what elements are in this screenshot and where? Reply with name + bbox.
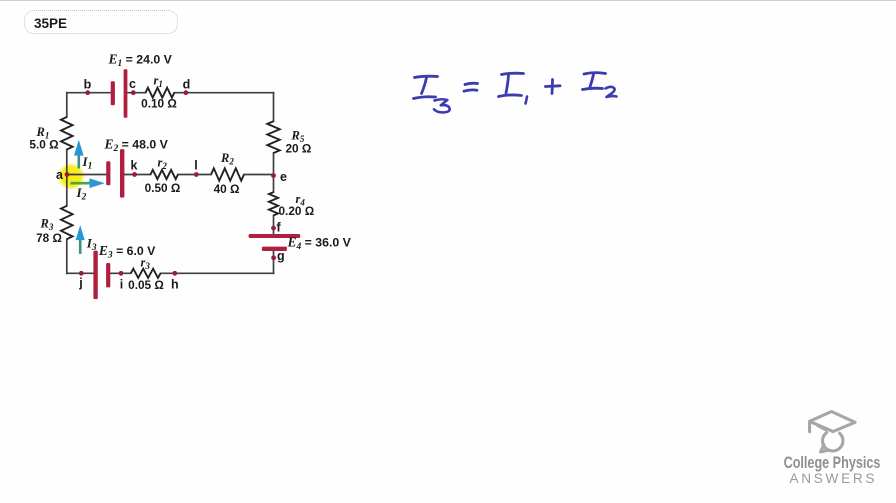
top hairline border bbox=[0, 0, 896, 1]
svg-text:d: d bbox=[183, 78, 191, 92]
label node e bbox=[280, 170, 287, 184]
wire E3 to bottom-left corner (node j) bbox=[67, 272, 94, 274]
label 0.10 ohm bbox=[141, 97, 177, 111]
wire bottom-left corner up to R3 bbox=[66, 239, 68, 273]
wire R3 to R1 through node a bbox=[66, 150, 68, 206]
label node l bbox=[194, 159, 197, 173]
wire r4 to E4 (node f) bbox=[273, 215, 275, 234]
svg-text:b: b bbox=[84, 78, 92, 92]
label R1 bbox=[36, 125, 50, 141]
wire b to E1 (top) bbox=[67, 92, 111, 94]
node j junction dot bbox=[79, 271, 84, 276]
wire E2 to r2 (node k) bbox=[124, 174, 150, 176]
handwritten equation I3 = I1 + I2 bbox=[414, 73, 617, 113]
svg-text:E2 = 48.0 V: E2 = 48.0 V bbox=[104, 137, 169, 155]
label current I1 bbox=[82, 154, 93, 172]
current arrow I2 (green/blue, rightward at node a) bbox=[71, 178, 105, 188]
label node j bbox=[78, 276, 82, 290]
resistor R5 20 ohm (right upper) bbox=[267, 121, 279, 153]
svg-text:e: e bbox=[280, 170, 287, 184]
node i junction dot bbox=[119, 271, 124, 276]
label node i bbox=[120, 278, 123, 292]
label 5.0 ohm bbox=[29, 138, 58, 152]
label r3 bbox=[141, 255, 151, 271]
svg-text:0.50 Ω: 0.50 Ω bbox=[145, 181, 181, 195]
College Physics Answers logo: graduation-cap speech bubble icon bbox=[810, 412, 855, 452]
wire R1 to top-left corner bbox=[66, 93, 68, 117]
wire R5 to r4 through node e bbox=[273, 153, 275, 192]
svg-text:E1 = 24.0 V: E1 = 24.0 V bbox=[108, 52, 173, 70]
label R3 bbox=[40, 217, 54, 233]
svg-text:E3 = 6.0 V: E3 = 6.0 V bbox=[98, 243, 156, 261]
current arrow I1 (blue, upward at node a) bbox=[74, 140, 84, 169]
node f junction dot bbox=[271, 226, 276, 231]
wire d to top-right corner bbox=[174, 92, 273, 94]
battery E2 positive plate (long) bbox=[120, 149, 124, 198]
node g junction dot bbox=[271, 255, 276, 260]
node l junction dot bbox=[194, 172, 199, 177]
svg-text:r2: r2 bbox=[158, 156, 168, 172]
battery E4 positive plate (long, horizontal) bbox=[249, 234, 301, 238]
node e junction dot bbox=[271, 173, 276, 178]
svg-text:40 Ω: 40 Ω bbox=[214, 182, 240, 196]
battery E4 negative plate (short, horizontal) bbox=[262, 247, 287, 251]
svg-text:k: k bbox=[131, 159, 138, 173]
battery E1 positive plate (long) bbox=[124, 69, 128, 118]
label node f bbox=[277, 221, 282, 235]
label 0.50 ohm bbox=[145, 181, 181, 195]
svg-text:i: i bbox=[120, 278, 123, 292]
node c junction dot bbox=[131, 90, 136, 95]
wire E4 to bottom-right corner (node g) bbox=[273, 251, 275, 274]
svg-text:I2: I2 bbox=[76, 185, 87, 203]
node d junction dot bbox=[184, 90, 189, 95]
label r4 bbox=[296, 192, 306, 208]
svg-text:0.05 Ω: 0.05 Ω bbox=[128, 278, 164, 292]
svg-text:ANSWERS: ANSWERS bbox=[790, 471, 878, 486]
resistor R1 5.0 ohm (left upper) bbox=[61, 117, 73, 150]
label r1 bbox=[154, 74, 163, 90]
wire R2 to node e bbox=[244, 174, 274, 176]
svg-text:0.10 Ω: 0.10 Ω bbox=[141, 97, 177, 111]
svg-text:College Physics: College Physics bbox=[784, 454, 881, 472]
resistor r3 0.05 ohm (bottom branch) bbox=[131, 269, 161, 278]
svg-text:20 Ω: 20 Ω bbox=[286, 142, 312, 156]
label current I3 bbox=[86, 236, 97, 254]
label r2 bbox=[158, 156, 168, 172]
problem tag 35PE bbox=[24, 10, 178, 34]
node a highlight bbox=[58, 163, 85, 190]
node b junction dot bbox=[85, 90, 90, 95]
current arrow I3 (blue/teal, upward at R3) bbox=[76, 225, 85, 254]
label 78 ohm bbox=[36, 231, 62, 245]
logo text ANSWERS bbox=[790, 471, 878, 486]
node a junction dot bbox=[65, 172, 70, 177]
logo text College Physics bbox=[784, 454, 881, 472]
label 0.05 ohm bbox=[128, 278, 164, 292]
label node h bbox=[171, 278, 179, 292]
svg-text:I3: I3 bbox=[86, 236, 97, 254]
label EMF E3 = 6.0 V bbox=[98, 243, 156, 261]
wire r2 to R2 (node l) bbox=[178, 174, 211, 176]
wire top-right corner down to R5 bbox=[273, 93, 275, 122]
svg-text:I1: I1 bbox=[82, 154, 93, 172]
label EMF E1 = 24.0 V bbox=[108, 52, 173, 70]
label EMF E2 = 48.0 V bbox=[104, 137, 169, 155]
label node c bbox=[129, 77, 136, 91]
resistor R3 78 ohm (left lower) bbox=[61, 206, 73, 239]
label EMF E4 = 36.0 V bbox=[287, 235, 352, 253]
svg-text:h: h bbox=[171, 278, 179, 292]
battery E2 negative plate (short) bbox=[106, 161, 110, 185]
node h junction dot bbox=[172, 271, 177, 276]
label current I2 bbox=[76, 185, 87, 203]
resistor r1 0.10 ohm (top branch) bbox=[146, 88, 175, 98]
svg-text:g: g bbox=[277, 249, 285, 263]
svg-text:5.0 Ω: 5.0 Ω bbox=[29, 138, 58, 152]
label R5 bbox=[291, 129, 305, 145]
label node b bbox=[84, 78, 92, 92]
label node a bbox=[56, 168, 64, 182]
battery E3 positive plate (long) bbox=[93, 251, 97, 300]
svg-text:f: f bbox=[277, 221, 282, 235]
node k junction dot bbox=[132, 172, 137, 177]
svg-text:78 Ω: 78 Ω bbox=[36, 231, 62, 245]
svg-text:a: a bbox=[56, 168, 64, 182]
battery E3 negative plate (short) bbox=[106, 263, 110, 287]
wire r3 to E3 (node i) bbox=[110, 272, 131, 274]
wire bottom-right corner to r3 (node h) bbox=[161, 272, 274, 274]
wire E1 to r1 bbox=[127, 92, 146, 94]
svg-text:r1: r1 bbox=[154, 74, 163, 90]
svg-text:l: l bbox=[194, 159, 197, 173]
label node g bbox=[277, 249, 285, 263]
resistor r2 0.50 ohm (middle branch) bbox=[151, 170, 179, 179]
svg-text:E4 = 36.0 V: E4 = 36.0 V bbox=[287, 235, 352, 253]
svg-text:j: j bbox=[78, 276, 82, 290]
label node k bbox=[131, 159, 138, 173]
svg-text:c: c bbox=[129, 77, 136, 91]
label 0.20 ohm bbox=[279, 204, 315, 218]
battery E1 negative plate (short) bbox=[111, 81, 115, 105]
label node d bbox=[183, 78, 191, 92]
resistor R2 40 ohm (middle branch) bbox=[211, 168, 244, 180]
label R2 bbox=[220, 151, 234, 167]
svg-text:R3: R3 bbox=[40, 217, 54, 233]
svg-text:R2: R2 bbox=[220, 151, 234, 167]
resistor r4 0.20 ohm (right branch) bbox=[269, 192, 278, 215]
label 20 ohm bbox=[286, 142, 312, 156]
svg-text:0.20 Ω: 0.20 Ω bbox=[279, 204, 315, 218]
wire node a to E2 (middle branch) bbox=[67, 174, 107, 176]
label 40 ohm bbox=[214, 182, 240, 196]
